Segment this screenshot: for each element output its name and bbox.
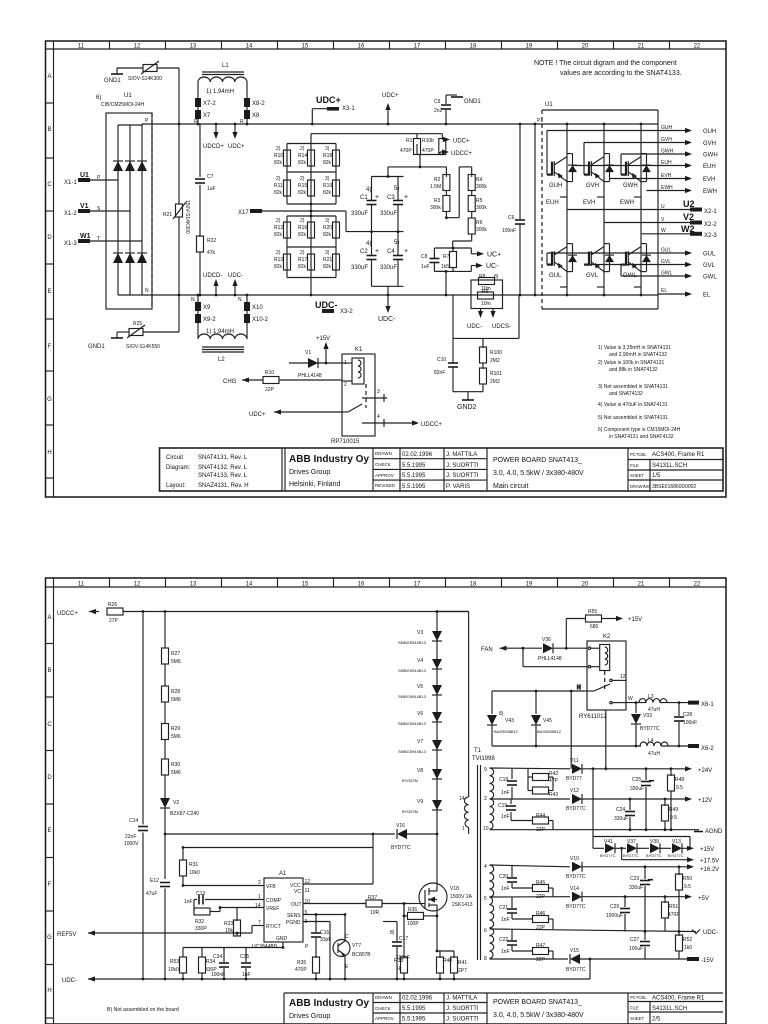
svg-text:10R: 10R	[370, 910, 380, 916]
svg-text:14: 14	[246, 582, 253, 588]
svg-text:5.5.1995: 5.5.1995	[402, 1017, 426, 1023]
sheet2 row letters	[47, 615, 52, 994]
svg-text:DRAWING: DRAWING	[630, 484, 650, 489]
svg-text:UDC+: UDC+	[249, 412, 266, 418]
svg-text:2): 2)	[276, 146, 281, 152]
sheet1 column ticks	[110, 41, 670, 49]
svg-text:UDC-: UDC-	[378, 316, 396, 323]
svg-text:5): 5)	[394, 186, 399, 192]
emitter wire EL	[658, 288, 711, 299]
svg-text:UDCS-: UDCS-	[492, 324, 511, 330]
svg-text:3.0, 4.0, 5.5kW / 3x380-480V: 3.0, 4.0, 5.5kW / 3x380-480V	[493, 470, 584, 477]
svg-text:G: G	[47, 397, 52, 403]
svg-text:V18: V18	[450, 886, 459, 892]
svg-text:SENS: SENS	[287, 913, 301, 919]
svg-text:R14: R14	[298, 153, 307, 159]
wire VCC feed	[183, 834, 373, 884]
junction dots UDC- bottom bus sheet1	[178, 294, 643, 297]
svg-text:SHEET: SHEET	[630, 1016, 644, 1021]
arrow REF5V	[57, 926, 264, 939]
svg-text:NOTE ! The circuit digram and: NOTE ! The circuit digram and the compon…	[534, 60, 677, 67]
arrow UC+	[471, 248, 501, 259]
wire SENS	[303, 914, 345, 916]
svg-text:BYD77C: BYD77C	[600, 853, 616, 858]
IGBT module U1 box	[542, 102, 658, 309]
svg-text:5.5.1995: 5.5.1995	[402, 484, 426, 490]
svg-text:6): 6)	[96, 95, 101, 101]
connector X10 / X10-2 pins	[238, 295, 269, 337]
svg-text:C35: C35	[240, 954, 249, 960]
svg-text:EUH: EUH	[546, 200, 559, 206]
svg-text:BYD77C: BYD77C	[566, 904, 586, 910]
wire sec pin4 to +16.2V	[490, 865, 571, 867]
snubber C18 R42 R43	[499, 769, 559, 799]
svg-text:11: 11	[78, 44, 85, 50]
svg-text:V10: V10	[570, 856, 579, 862]
svg-text:1nF: 1nF	[501, 917, 510, 923]
svg-text:R5: R5	[476, 198, 483, 204]
svg-text:R20: R20	[323, 225, 332, 231]
svg-text:SIOV-S14K550: SIOV-S14K550	[126, 344, 160, 350]
resistor bank rails	[287, 144, 336, 296]
diode V10 +16.2V rectifier	[566, 856, 719, 880]
svg-text:82k: 82k	[323, 264, 332, 270]
svg-text:2): 2)	[276, 218, 281, 224]
svg-text:1nF: 1nF	[501, 814, 510, 820]
svg-text:3): 3)	[325, 250, 330, 256]
svg-text:EWH: EWH	[703, 189, 717, 195]
svg-text:V4: V4	[417, 658, 423, 664]
svg-text:SIOV-S14K300: SIOV-S14K300	[128, 76, 162, 82]
svg-text:X6-1: X6-1	[701, 702, 714, 708]
svg-text:UDC-: UDC-	[228, 273, 243, 279]
svg-text:3BSE016860D0002: 3BSE016860D0002	[652, 484, 696, 490]
svg-text:GWH: GWH	[623, 183, 638, 189]
svg-text:EL: EL	[703, 293, 711, 299]
svg-text:13: 13	[190, 582, 197, 588]
svg-text:ACS400, Frame R1: ACS400, Frame R1	[652, 452, 705, 458]
svg-text:BYD77C: BYD77C	[566, 806, 586, 812]
relay contacts	[348, 404, 362, 412]
svg-text:BYD57M: BYD57M	[402, 778, 418, 783]
svg-text:100P: 100P	[407, 921, 419, 927]
svg-text:1uF: 1uF	[421, 264, 430, 270]
description box	[486, 448, 488, 491]
transformer T1 TVI1998	[459, 748, 495, 962]
svg-text:GND1: GND1	[88, 344, 105, 350]
svg-text:UDCC+: UDCC+	[421, 422, 442, 428]
svg-text:V9: V9	[417, 799, 423, 805]
svg-text:U1: U1	[80, 172, 89, 179]
svg-text:H: H	[577, 685, 581, 691]
svg-text:82k: 82k	[298, 232, 307, 238]
resistor R33	[224, 908, 241, 937]
svg-text:C10: C10	[437, 357, 446, 363]
svg-text:GUL: GUL	[549, 273, 562, 279]
svg-text:EWH: EWH	[661, 185, 673, 191]
svg-text:16: 16	[358, 44, 365, 50]
svg-text:5.5.1995: 5.5.1995	[402, 1006, 426, 1012]
svg-text:V14: V14	[570, 886, 579, 892]
resistor R14	[308, 150, 315, 166]
svg-text:330uF: 330uF	[380, 211, 397, 217]
phase wire V2	[604, 212, 717, 228]
svg-text:X2-2: X2-2	[704, 222, 717, 228]
svg-text:R: R	[240, 119, 244, 125]
gate wire GVL	[584, 259, 716, 269]
svg-text:E12: E12	[150, 878, 159, 884]
svg-text:GWH: GWH	[703, 153, 718, 159]
svg-text:14: 14	[459, 796, 465, 802]
svg-text:BYD77C: BYD77C	[640, 726, 660, 732]
svg-text:C21: C21	[499, 905, 508, 911]
svg-text:GUH: GUH	[661, 125, 673, 131]
svg-text:EVH: EVH	[583, 200, 595, 206]
svg-text:D: D	[47, 775, 52, 781]
svg-text:X1-2: X1-2	[64, 211, 77, 217]
svg-text:BYD57M: BYD57M	[402, 809, 418, 814]
svg-text:VC: VC	[294, 889, 301, 895]
resistor R13	[284, 254, 291, 270]
svg-text:X7: X7	[203, 113, 211, 119]
wire sec pin6 to UDC-	[490, 929, 694, 932]
svg-text:R25: R25	[133, 321, 142, 327]
svg-text:EUH: EUH	[703, 164, 716, 170]
svg-text:GND2: GND2	[457, 404, 477, 411]
svg-text:R43: R43	[549, 792, 558, 798]
svg-text:PCTCBL: PCTCBL	[630, 995, 647, 1000]
wire sec pin8 to -15V	[490, 958, 569, 960]
svg-text:R9: R9	[482, 289, 489, 295]
junction dots UDC+ top bus sheet1	[178, 123, 643, 126]
svg-text:C6: C6	[508, 215, 515, 221]
sheet 1 : main circuit	[46, 41, 727, 497]
svg-text:and 2,90mH in SNAT4132: and 2,90mH in SNAT4132	[609, 352, 667, 358]
svg-text:BYD77C: BYD77C	[566, 967, 586, 973]
svg-text:2): 2)	[276, 176, 281, 182]
resistor R36	[404, 904, 437, 928]
resistor chain R4 R5 R6	[453, 167, 488, 248]
svg-text:+15V: +15V	[628, 617, 642, 623]
svg-text:X3-2: X3-2	[340, 309, 353, 315]
sheet1 row ticks	[46, 103, 54, 478]
title block sheet1	[160, 448, 724, 491]
svg-text:330P: 330P	[195, 926, 207, 932]
svg-text:R10: R10	[265, 370, 274, 376]
svg-text:R37: R37	[368, 895, 377, 901]
svg-text:Helsinki, Finland: Helsinki, Finland	[289, 481, 340, 488]
diode V9	[402, 799, 442, 814]
resistor R19	[333, 180, 340, 196]
arrow FAN	[481, 646, 542, 653]
snubber C21 R46	[499, 897, 553, 931]
svg-text:B: B	[47, 668, 51, 674]
svg-text:2): 2)	[300, 250, 305, 256]
varistor R24 top	[117, 61, 179, 74]
wire PGND	[303, 922, 330, 980]
svg-text:+5V: +5V	[698, 896, 709, 902]
svg-text:82k: 82k	[274, 190, 283, 196]
svg-text:SNAZ4131, Rev. H: SNAZ4131, Rev. H	[198, 483, 249, 489]
svg-text:E: E	[47, 828, 51, 834]
sheet1 outer frame	[46, 41, 727, 497]
svg-text:+17.5V: +17.5V	[700, 859, 719, 865]
svg-text:R10: R10	[274, 153, 283, 159]
svg-text:SHEET: SHEET	[630, 473, 644, 478]
svg-text:5M6: 5M6	[171, 770, 181, 776]
emitter wire EUH	[573, 160, 716, 170]
svg-text:VT7: VT7	[352, 943, 361, 949]
diode V8	[402, 768, 442, 783]
svg-text:BYD77C: BYD77C	[566, 874, 586, 880]
svg-text:X8: X8	[252, 113, 260, 119]
svg-text:BYD77C: BYD77C	[668, 853, 684, 858]
svg-text:14: 14	[246, 44, 253, 50]
svg-text:15: 15	[302, 44, 309, 50]
svg-text:UDCD-: UDCD-	[203, 273, 222, 279]
svg-text:R27: R27	[171, 651, 180, 657]
wire sec pin5 to +5V	[490, 896, 571, 898]
svg-text:A1: A1	[279, 871, 287, 877]
svg-text:100nF: 100nF	[683, 720, 697, 726]
wire midpoint rail	[346, 211, 404, 232]
svg-text:R7: R7	[443, 254, 450, 260]
svg-text:V11: V11	[570, 758, 579, 764]
svg-text:5M6: 5M6	[171, 659, 181, 665]
svg-text:8): 8)	[494, 274, 499, 280]
capacitor C1	[351, 167, 404, 232]
svg-text:L2: L2	[218, 357, 225, 363]
svg-text:330uF: 330uF	[380, 265, 397, 271]
svg-text:R35: R35	[297, 960, 306, 966]
svg-text:Drives Group: Drives Group	[289, 1013, 330, 1020]
relay coil	[352, 358, 364, 384]
svg-text:J. SUORTTI: J. SUORTTI	[446, 463, 479, 469]
svg-text:R15: R15	[298, 183, 307, 189]
svg-text:6: 6	[484, 928, 487, 934]
diode V14 +5V rectifier	[566, 886, 709, 910]
svg-text:GND1: GND1	[104, 78, 121, 84]
svg-text:22: 22	[694, 582, 701, 588]
arrow UDCC+ out	[440, 149, 472, 157]
notes list 1-6	[598, 345, 681, 440]
svg-text:3) Not assembled in SNAT4131: 3) Not assembled in SNAT4131	[598, 384, 668, 390]
transistor GWL	[621, 244, 651, 287]
sheet2 row letter strip line	[53, 578, 55, 1024]
svg-text:H: H	[47, 988, 51, 994]
svg-text:C8: C8	[421, 254, 428, 260]
svg-text:330uF: 330uF	[351, 211, 368, 217]
svg-text:300k: 300k	[430, 205, 441, 211]
capacitor C16	[311, 915, 331, 959]
svg-text:A: A	[47, 615, 51, 621]
capacitor C29 1000uF	[606, 897, 630, 932]
svg-text:47uH: 47uH	[648, 751, 660, 757]
resistor chain R2 R3	[388, 167, 459, 218]
svg-text:82k: 82k	[323, 190, 332, 196]
svg-text:PCTCBL: PCTCBL	[630, 452, 647, 457]
svg-text:C28: C28	[683, 712, 692, 718]
diode V45 (not assembled)	[531, 691, 562, 746]
transistor GWH	[620, 154, 651, 206]
capacitor C6	[502, 124, 525, 295]
svg-text:SMBG5944B13: SMBG5944B13	[398, 668, 427, 673]
svg-text:Circuit: Circuit	[166, 455, 183, 461]
svg-text:21: 21	[638, 44, 645, 50]
svg-text:V41: V41	[604, 839, 613, 845]
svg-text:+: +	[375, 194, 379, 201]
svg-text:10: 10	[305, 899, 311, 905]
svg-text:R41: R41	[458, 960, 467, 966]
svg-text:GUL: GUL	[703, 252, 716, 258]
T1 secondary upper winding	[490, 768, 494, 830]
T1 core	[477, 765, 479, 960]
svg-text:R4: R4	[476, 177, 483, 183]
svg-text:X7-2: X7-2	[203, 101, 216, 107]
connector X3-1 UDC+	[316, 95, 355, 112]
svg-text:10: 10	[483, 826, 489, 832]
svg-text:BZX87-C240: BZX87-C240	[170, 811, 199, 817]
svg-text:R52: R52	[683, 937, 692, 943]
svg-text:9.5: 9.5	[676, 785, 683, 791]
svg-text:47k: 47k	[207, 250, 216, 256]
svg-text:K2: K2	[603, 634, 611, 640]
svg-text:UDCC+: UDCC+	[451, 151, 472, 157]
svg-text:GWL: GWL	[661, 271, 673, 277]
svg-text:SMBG5944B13: SMBG5944B13	[398, 640, 427, 645]
svg-text:470P: 470P	[400, 148, 412, 154]
svg-text:10m: 10m	[481, 301, 491, 307]
svg-text:470P: 470P	[295, 967, 307, 973]
emitter wire EWH	[647, 185, 718, 195]
svg-text:BAS9558B12: BAS9558B12	[537, 729, 562, 734]
diode V43 (not assembled)	[487, 691, 519, 746]
svg-text:W: W	[628, 696, 633, 702]
svg-text:R44: R44	[536, 813, 545, 819]
svg-text:22P: 22P	[536, 957, 546, 963]
transistor V18 MOSFET switch	[410, 834, 473, 911]
svg-text:470P: 470P	[668, 912, 680, 918]
svg-text:V43: V43	[505, 718, 514, 724]
svg-text:R29: R29	[171, 726, 180, 732]
svg-text:22P: 22P	[536, 925, 546, 931]
diode V37	[623, 839, 649, 858]
title block sheet2	[284, 993, 723, 1024]
wire sec pin10 AGND	[490, 829, 694, 831]
wire relay aux drop	[605, 710, 607, 769]
svg-text:R28: R28	[171, 689, 180, 695]
+15V diode chain	[593, 769, 690, 849]
phase wire U2	[567, 199, 717, 215]
resistor R1 470P	[400, 134, 421, 155]
svg-text:GVL: GVL	[661, 259, 671, 265]
svg-text:V3: V3	[417, 630, 423, 636]
svg-text:P. VARIS: P. VARIS	[446, 484, 470, 490]
resistor R11	[284, 180, 291, 196]
shunt box R8 R9	[471, 274, 503, 309]
svg-text:R53: R53	[170, 959, 179, 965]
svg-text:6) Component type is CM15MDI-2: 6) Component type is CM15MDI-24H	[598, 427, 681, 433]
svg-text:3: 3	[377, 389, 380, 395]
svg-text:E: E	[47, 289, 51, 295]
svg-text:GUL: GUL	[661, 248, 672, 254]
resistor R35	[295, 957, 320, 979]
svg-text:EWH: EWH	[620, 200, 634, 206]
diode V2	[160, 798, 199, 834]
svg-text:UDC+: UDC+	[316, 95, 341, 105]
svg-text:R32: R32	[195, 919, 204, 925]
svg-text:L4: L4	[648, 738, 654, 744]
capacitor C28	[674, 703, 697, 746]
svg-text:EVH: EVH	[703, 177, 715, 183]
svg-text:19: 19	[526, 44, 533, 50]
svg-text:R42: R42	[549, 771, 558, 777]
svg-text:N: N	[238, 297, 242, 303]
svg-text:S4131L.SCH: S4131L.SCH	[652, 1006, 687, 1012]
sheet2 column header line	[46, 586, 727, 588]
svg-text:BYD77C: BYD77C	[391, 845, 411, 851]
svg-text:14: 14	[255, 903, 261, 909]
wire UDC+ top bus	[142, 123, 658, 125]
svg-text:R18: R18	[323, 153, 332, 159]
rectifier module U1 box	[96, 93, 152, 309]
op-amp U/A1 PWM controller UC3844BD	[252, 871, 310, 950]
wire sec pin9 to +24V	[490, 767, 571, 770]
svg-text:1000V: 1000V	[124, 841, 139, 847]
svg-text:X9-2: X9-2	[203, 317, 216, 323]
svg-text:2): 2)	[300, 218, 305, 224]
svg-text:1k5: 1k5	[441, 264, 449, 270]
svg-text:470P: 470P	[422, 148, 434, 154]
resistor R17	[308, 254, 315, 270]
capacitor C4	[380, 232, 408, 287]
svg-text:GUH: GUH	[549, 183, 562, 189]
resistor R37 OUT gate drive	[303, 895, 410, 916]
svg-text:R12: R12	[274, 225, 283, 231]
svg-text:R22: R22	[207, 238, 216, 244]
ABB company box	[284, 448, 286, 491]
svg-text:UDC-: UDC-	[467, 324, 482, 330]
svg-text:8): 8)	[499, 711, 504, 717]
T1 secondary lower winding	[490, 865, 494, 959]
arrow CHG + resistor R10	[223, 370, 342, 393]
svg-text:+16.2V: +16.2V	[700, 867, 719, 873]
wire vertical x165 lower + capacitor E12	[146, 834, 170, 979]
svg-text:4): 4)	[366, 187, 371, 193]
arrow UDC+ relay feed	[249, 409, 342, 418]
transistor VT7	[333, 915, 371, 980]
wire UDC- bottom rail	[62, 976, 590, 984]
svg-text:R26: R26	[108, 602, 117, 608]
svg-text:GND1: GND1	[464, 99, 481, 105]
svg-text:L3: L3	[648, 694, 654, 700]
circuit/diagram/layout box	[160, 448, 283, 491]
svg-text:82k: 82k	[323, 232, 332, 238]
svg-text:C22: C22	[499, 937, 508, 943]
diode V7	[398, 739, 442, 754]
arrows shunt sense down	[478, 309, 496, 319]
svg-text:19: 19	[526, 582, 533, 588]
svg-text:13: 13	[190, 44, 197, 50]
resistor R38 gate	[394, 904, 408, 980]
UDC- terminal	[692, 930, 718, 937]
connector X8-2 / X8 pins	[240, 90, 265, 125]
wire vertical x143 + capacitor C14	[124, 612, 148, 980]
svg-text:R13: R13	[274, 257, 283, 263]
sheet2 row ticks	[46, 644, 54, 1019]
wire bank feed	[311, 134, 442, 144]
svg-text:12: 12	[305, 879, 311, 885]
